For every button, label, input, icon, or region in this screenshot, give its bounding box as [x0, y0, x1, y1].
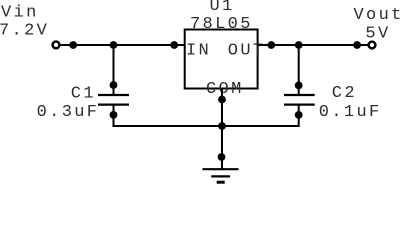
wire U1 OUT to Vout: [258, 44, 368, 46]
wire Vin to U1 IN: [61, 44, 185, 46]
svg-text:Vout: Vout: [354, 6, 400, 25]
pin dot OUT: [267, 41, 275, 49]
op-amp U1 regulator box 78L05: [185, 30, 258, 89]
svg-text:U1: U1: [210, 0, 235, 16]
node A junction dot: [110, 41, 118, 49]
wire U1 COM down to ground: [221, 89, 223, 170]
junction dot ground bus: [218, 122, 226, 130]
capacitor C2: [284, 95, 315, 105]
svg-text:78L05: 78L05: [190, 15, 253, 34]
junction dot: [69, 41, 77, 49]
ground: [203, 169, 239, 182]
junction dot above ground: [218, 153, 226, 161]
pin dot C2 bottom: [295, 111, 303, 119]
capacitor C1: [98, 95, 129, 105]
pin dot COM: [218, 96, 226, 104]
junction dot: [353, 41, 361, 49]
terminal Vout: [369, 42, 376, 49]
svg-text:C2: C2: [332, 84, 357, 103]
svg-text:0.3uF: 0.3uF: [37, 103, 100, 122]
wire C1 down to ground bus: [114, 105, 223, 126]
terminal Vin: [53, 42, 60, 49]
pin dot C1 bottom: [110, 111, 118, 119]
wire C2 down to ground bus: [222, 105, 299, 126]
svg-text:COM: COM: [206, 80, 244, 99]
svg-text:5V: 5V: [365, 24, 390, 43]
svg-text:7.2V: 7.2V: [0, 22, 49, 41]
svg-text:0.1uF: 0.1uF: [319, 103, 382, 122]
pin dot C2 top: [295, 82, 303, 90]
wire node B down to C2: [298, 45, 300, 95]
node B junction dot: [295, 41, 303, 49]
pin dot IN: [170, 41, 178, 49]
svg-text:IN: IN: [186, 42, 211, 61]
svg-text:Vin: Vin: [1, 4, 39, 23]
svg-text:C1: C1: [71, 84, 96, 103]
pin dot C1 top: [110, 81, 118, 89]
wire node A down to C1: [113, 45, 115, 95]
